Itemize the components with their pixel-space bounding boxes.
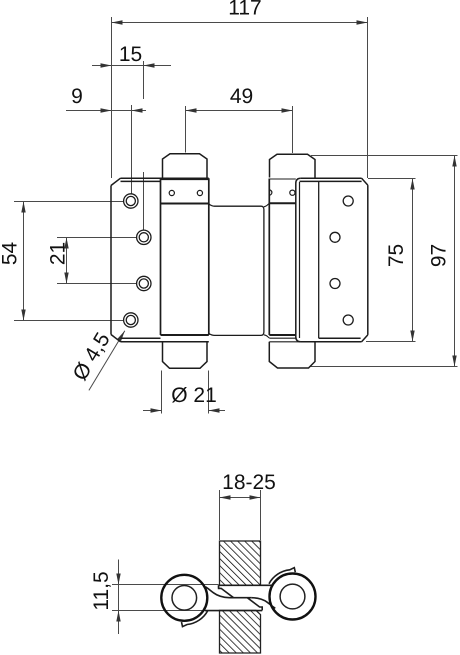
svg-text:97: 97	[428, 244, 451, 267]
svg-text:11,5: 11,5	[90, 571, 113, 610]
svg-text:117: 117	[228, 0, 262, 20]
svg-text:21: 21	[47, 242, 70, 265]
svg-text:15: 15	[119, 43, 142, 66]
svg-text:9: 9	[71, 85, 83, 108]
svg-text:54: 54	[0, 242, 22, 266]
svg-text:49: 49	[230, 85, 253, 108]
svg-text:Ø 21: Ø 21	[171, 384, 217, 407]
svg-text:75: 75	[385, 244, 408, 267]
svg-text:18-25: 18-25	[222, 471, 276, 494]
